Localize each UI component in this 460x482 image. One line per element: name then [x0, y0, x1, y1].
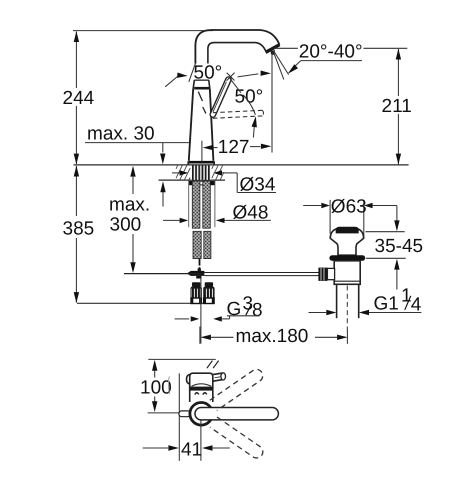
- dia 48 clearance lines: [188, 181, 190, 228]
- dimension dia 48: [163, 219, 180, 221]
- svg-text:35-45: 35-45: [375, 236, 424, 257]
- plan body left bump: [187, 374, 190, 384]
- max.30 lower arrow (points up at counter bottom): [160, 181, 165, 192]
- spout outer contour: [195, 30, 279, 80]
- dimension 127 (spout reach): [201, 141, 203, 163]
- drain flange: [330, 229, 364, 255]
- plan body arc: [192, 384, 212, 386]
- svg-text:Ø34: Ø34: [240, 174, 276, 195]
- extension line: spout outlet level (to 211 dim): [274, 47, 298, 49]
- label 50 deg lever swing (upper): [193, 64, 224, 80]
- svg-text:50°: 50°: [194, 63, 223, 84]
- mounting nut: [189, 181, 193, 185]
- svg-text:100: 100: [140, 378, 172, 399]
- pop-up rod (vertical, dashed): [199, 259, 201, 266]
- dimension 244 (total height): [75, 32, 77, 89]
- lever tip cross mark: [227, 73, 235, 81]
- rod clevis knob: [318, 268, 327, 281]
- plan body marks: [195, 393, 199, 395]
- rod junction: [187, 271, 205, 276]
- svg-text:41: 41: [181, 439, 202, 460]
- counter top surface: [74, 164, 409, 166]
- dimension dia 34 (hole): [172, 172, 180, 174]
- svg-text:4: 4: [411, 294, 422, 315]
- drain tailpipe: [336, 284, 338, 318]
- counter bottom surface: [159, 179, 226, 181]
- svg-text:8: 8: [252, 300, 263, 321]
- horizontal pop-up rod: [124, 273, 204, 275]
- svg-text:G: G: [227, 299, 242, 320]
- hose connector G3/8 at x=208.9: [205, 282, 213, 287]
- svg-text:20°-40°: 20°-40°: [299, 42, 363, 63]
- lever handle (side view): [209, 76, 232, 118]
- spout break marks: [207, 361, 213, 369]
- plan view: swivel circle: [190, 403, 213, 426]
- 41 extension lines: [178, 373, 180, 461]
- plan view: lever swung down (dashed): [210, 417, 265, 460]
- drain plug cap: [336, 227, 359, 234]
- dimension dia 63 (drain flange): [303, 205, 321, 207]
- svg-text:Ø63: Ø63: [331, 196, 367, 217]
- dimension G 1 1/4: [309, 312, 327, 314]
- aerator angle range lines: [274, 51, 289, 75]
- plan view: faucet body: [190, 373, 213, 402]
- o-ring seal: [329, 255, 365, 261]
- extension line: faucet axis (plan): [148, 412, 190, 414]
- svg-text:127: 127: [218, 137, 250, 158]
- extension line: hose ends level: [77, 302, 213, 304]
- faucet body sides: [189, 88, 193, 160]
- dimension 41: [143, 447, 169, 449]
- svg-text:max. 30: max. 30: [87, 124, 155, 145]
- svg-text:211: 211: [382, 96, 412, 117]
- svg-text:max.: max.: [109, 195, 150, 216]
- svg-text:244: 244: [63, 88, 95, 109]
- dimension max.300 (rod length): [130, 166, 135, 177]
- drain body: [334, 261, 360, 285]
- svg-text:385: 385: [63, 219, 95, 240]
- dimension 211 (outlet height): [397, 49, 399, 96]
- flexible connection hoses (upper): [192, 181, 200, 228]
- plan view: lever swung up (dashed): [210, 367, 265, 410]
- plan view: spout stub: [179, 411, 191, 417]
- extension line: spout top level: [73, 30, 213, 32]
- G3/8 pointer arrows: [175, 318, 190, 320]
- plan view: spout reach extension line: [148, 358, 216, 360]
- svg-text:max.180: max.180: [236, 326, 309, 347]
- base plate: [189, 161, 214, 164]
- faint arc: [168, 376, 169, 394]
- plan body dark band: [190, 387, 212, 391]
- lever ghost dashes (closed position): [198, 92, 202, 101]
- dimension 385 (height to hose ends): [75, 166, 77, 216]
- dimension max.180: [199, 327, 201, 344]
- svg-text:G1: G1: [374, 294, 399, 315]
- flexible connection hoses (lower): [193, 231, 201, 258]
- rod clevis box: [327, 268, 334, 279]
- spout inner contour: [208, 43, 266, 80]
- aerator face (mousseur): [266, 45, 280, 53]
- lever open position (dashed): [213, 110, 263, 112]
- faucet centerline (below): [200, 279, 202, 344]
- svg-text:300: 300: [110, 215, 142, 236]
- hose connector G3/8 at x=196.2: [192, 282, 200, 287]
- counter section hatching: [176, 166, 178, 169]
- svg-text:Ø48: Ø48: [233, 202, 269, 223]
- plan lever pin: [213, 373, 223, 375]
- dimension 100: [152, 360, 157, 371]
- threaded mounting shank: [192, 166, 211, 180]
- plan centerline inside circle: [200, 414, 202, 426]
- plan view: lever (solid): [195, 408, 278, 420]
- faucet body: swivel ring seam: [193, 80, 194, 89]
- drain centerline (dashed): [346, 286, 348, 331]
- dimension 35-45 (basin thickness): [396, 206, 398, 221]
